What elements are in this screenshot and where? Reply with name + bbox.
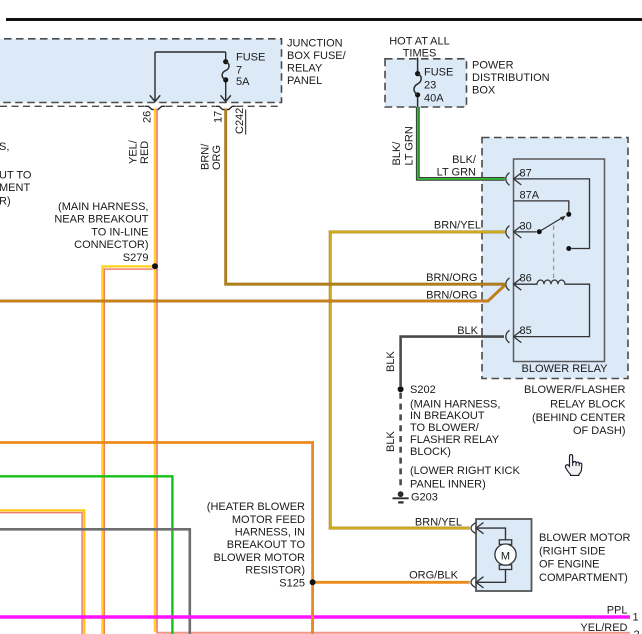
- hand cursor: [565, 455, 581, 476]
- svg-text:40A: 40A: [424, 93, 444, 105]
- wire BRN/ORG upper: fuse 17 to relay 86: [226, 109, 505, 285]
- svg-text:87A: 87A: [520, 190, 540, 202]
- svg-text:NEAR BREAKOUT: NEAR BREAKOUT: [54, 214, 148, 226]
- svg-text:7: 7: [236, 65, 242, 77]
- svg-text:(BEHIND CENTER: (BEHIND CENTER: [532, 412, 626, 424]
- blower relay K1 inner box: [514, 159, 605, 362]
- svg-text:ORG/BLK: ORG/BLK: [409, 570, 459, 582]
- svg-text:S,: S,: [0, 141, 9, 153]
- blower/flasher relay block (dashed box): [482, 138, 628, 379]
- svg-text:BRN/ORG: BRN/ORG: [426, 272, 477, 284]
- svg-text:CONNECTOR): CONNECTOR): [74, 239, 148, 251]
- svg-text:RELAY: RELAY: [287, 62, 323, 74]
- wire BRN/YEL: relay 30 to blower motor: [330, 232, 505, 528]
- svg-text:(MAIN HARNESS,: (MAIN HARNESS,: [410, 398, 500, 410]
- svg-text:BLK/: BLK/: [391, 141, 403, 166]
- svg-text:1: 1: [633, 612, 639, 624]
- wire PPL: [0, 615, 630, 619]
- svg-text:R): R): [0, 196, 11, 208]
- motor M1 armature: [495, 544, 516, 565]
- motor brush top: [499, 540, 511, 545]
- relay mechanical link (dashed): [553, 226, 555, 279]
- svg-text:BLOWER MOTOR: BLOWER MOTOR: [214, 552, 306, 564]
- relay switch arm: [541, 218, 563, 231]
- svg-text:23: 23: [424, 80, 436, 92]
- relay internals: [514, 179, 590, 337]
- motor brush bottom: [499, 565, 511, 570]
- pin 87 line: [514, 179, 590, 249]
- wire ORG overpaint (orange passes over PPL): [311, 610, 314, 634]
- svg-text:FLASHER RELAY: FLASHER RELAY: [410, 434, 500, 446]
- svg-text:S202: S202: [410, 384, 436, 396]
- svg-text:(HEATER BLOWER: (HEATER BLOWER: [207, 501, 305, 513]
- svg-text:MOTOR FEED: MOTOR FEED: [232, 514, 305, 526]
- fuse F23 40A wire + symbol: [417, 58, 419, 72]
- power distribution box (dashed box): [385, 59, 467, 107]
- relay pin cups + arrows: [506, 173, 522, 343]
- svg-text:LT GRN: LT GRN: [437, 167, 476, 179]
- wire BLK dashed to ground: [399, 393, 402, 487]
- svg-text:C242: C242: [234, 108, 246, 134]
- svg-text:2: 2: [634, 629, 640, 634]
- svg-text:(RIGHT SIDE: (RIGHT SIDE: [539, 545, 605, 557]
- ground G203: [393, 491, 409, 502]
- svg-text:G203: G203: [411, 492, 438, 504]
- svg-text:OF ENGINE: OF ENGINE: [539, 559, 600, 571]
- pin 30 line: [514, 231, 537, 233]
- wire BLK (bottom left): [0, 529, 190, 634]
- svg-text:TIMES: TIMES: [403, 48, 437, 60]
- blower motor internals: [476, 528, 506, 582]
- wire BLK/LT GRN: fuse 23 to relay 87: [418, 107, 505, 179]
- blower motor box: [476, 519, 532, 591]
- svg-text:FUSE: FUSE: [424, 67, 453, 79]
- svg-text:86: 86: [520, 273, 532, 285]
- svg-text:HOT AT ALL: HOT AT ALL: [389, 36, 450, 48]
- svg-text:BLOCK): BLOCK): [410, 446, 451, 458]
- svg-text:BREAKOUT TO: BREAKOUT TO: [227, 539, 306, 551]
- svg-text:(MAIN HARNESS,: (MAIN HARNESS,: [58, 201, 148, 213]
- svg-text:HARNESS, IN: HARNESS, IN: [235, 527, 305, 539]
- svg-text:PPL: PPL: [607, 605, 628, 617]
- fuse F7 5A symbol: [223, 59, 228, 64]
- svg-text:87: 87: [520, 168, 532, 180]
- svg-text:BLK/: BLK/: [452, 154, 477, 166]
- wire YEL/RED main: pin 26 down, to bottom right off-page 2: [156, 109, 158, 633]
- svg-text:(LOWER RIGHT KICK: (LOWER RIGHT KICK: [410, 465, 520, 477]
- svg-text:5A: 5A: [236, 76, 250, 88]
- wire BLK: relay 85 to S202: [401, 337, 504, 387]
- pin 87A line: [514, 201, 569, 212]
- motor pin cups + arrows: [471, 523, 484, 588]
- svg-text:FUSE: FUSE: [236, 52, 265, 64]
- svg-text:YEL/RED: YEL/RED: [580, 622, 627, 634]
- relay U1 contact dots: [566, 246, 571, 251]
- svg-text:BLK: BLK: [457, 325, 478, 337]
- svg-text:BLOWER RELAY: BLOWER RELAY: [522, 363, 609, 375]
- svg-text:YEL/: YEL/: [128, 139, 140, 164]
- wire BRN/ORG lower: left edge to relay 86: [0, 286, 505, 302]
- junction box fuse/relay panel (dashed box): [0, 39, 282, 103]
- svg-text:85: 85: [520, 325, 532, 337]
- svg-text:COMPARTMENT): COMPARTMENT): [539, 572, 628, 584]
- svg-text:BRN/: BRN/: [200, 143, 212, 170]
- svg-text:RED: RED: [139, 141, 151, 164]
- pin 86 coil line: [514, 280, 590, 337]
- svg-text:DISTRIBUTION: DISTRIBUTION: [472, 72, 550, 84]
- svg-text:17: 17: [213, 111, 225, 123]
- svg-text:BOX: BOX: [472, 85, 496, 97]
- svg-text:BRN/ORG: BRN/ORG: [426, 290, 477, 302]
- svg-text:OF DASH): OF DASH): [573, 425, 626, 437]
- arrow pin 26: [150, 95, 160, 101]
- svg-text:RELAY BLOCK: RELAY BLOCK: [550, 398, 626, 410]
- svg-text:BLOWER MOTOR: BLOWER MOTOR: [539, 532, 631, 544]
- svg-text:IN BREAKOUT: IN BREAKOUT: [410, 410, 485, 422]
- svg-text:JUNCTION: JUNCTION: [287, 37, 343, 49]
- svg-text:POWER: POWER: [472, 59, 514, 71]
- svg-text:BLK: BLK: [385, 431, 397, 452]
- wire YEL/RED branch from S279: [104, 269, 152, 634]
- svg-text:S125: S125: [279, 577, 305, 589]
- svg-text:BRN/YEL: BRN/YEL: [434, 220, 481, 232]
- top border line: [6, 18, 642, 21]
- connector cup pin 26: [145, 106, 165, 109]
- svg-text:TO BLOWER/: TO BLOWER/: [410, 422, 480, 434]
- svg-text:BOX FUSE/: BOX FUSE/: [287, 50, 347, 62]
- svg-text:M: M: [501, 550, 510, 562]
- connector cup pin 17: [216, 106, 236, 109]
- svg-text:BLOWER/FLASHER: BLOWER/FLASHER: [524, 384, 626, 396]
- splice S202: [398, 386, 404, 392]
- splice S279: [152, 263, 158, 269]
- wire GRN (bottom left): [0, 476, 172, 634]
- svg-text:ORG: ORG: [211, 145, 223, 170]
- svg-text:30: 30: [520, 221, 532, 233]
- arrow pin 17: [221, 95, 231, 101]
- svg-text:UT TO: UT TO: [0, 170, 32, 182]
- svg-text:MENT: MENT: [0, 182, 30, 194]
- svg-text:TO IN-LINE: TO IN-LINE: [91, 227, 148, 239]
- svg-text:BRN/YEL: BRN/YEL: [415, 517, 462, 529]
- svg-text:PANEL INNER): PANEL INNER): [410, 479, 486, 491]
- svg-text:BLK: BLK: [385, 351, 397, 372]
- svg-text:LT GRN: LT GRN: [404, 126, 416, 165]
- wire ORG: to S125 and blower motor: [0, 443, 313, 634]
- svg-text:PANEL: PANEL: [287, 75, 322, 87]
- svg-text:RESISTOR): RESISTOR): [245, 565, 305, 577]
- splice S125: [310, 579, 316, 585]
- junction box internal wiring: [155, 52, 226, 101]
- svg-text:S279: S279: [123, 252, 149, 264]
- svg-text:26: 26: [142, 111, 154, 123]
- connector C242 face (second dashed line): [0, 105, 282, 107]
- wire YEL/RED (left, to bottom): [0, 513, 82, 634]
